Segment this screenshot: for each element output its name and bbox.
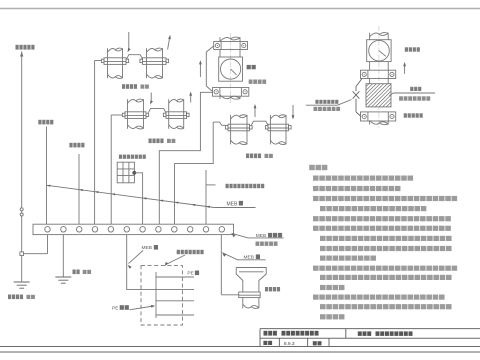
MEB terminal board bus bar: [33, 224, 234, 234]
label: (煤气公司确定) 2: [314, 107, 341, 111]
flow arrow shaft return: [292, 105, 294, 118]
leader to spark gap: [338, 100, 352, 106]
PE riser (PE干线): [155, 272, 157, 318]
note 10: 6.当利用建筑物金属体做防雷及接地时,MEB端子板: [313, 266, 457, 271]
label: 采暖管: [122, 84, 137, 89]
label: (注7) c: [265, 154, 273, 158]
wire: other parts to MEB bar: [205, 170, 207, 224]
gas upper flange: [361, 70, 396, 78]
test clamp square: [20, 252, 24, 256]
svg-text:PE: PE: [112, 305, 118, 311]
arrowhead PE干线: [151, 305, 155, 308]
note 2: 2.MEB线截面见具体工程设计。: [313, 186, 400, 191]
disconnect link circles: [20, 208, 23, 211]
label: 热水管: [246, 154, 261, 159]
arrowhead pointing at terminal board: [232, 233, 236, 237]
centerline of water meter: [229, 33, 231, 103]
wire: hot water pipes to MEB bar: [175, 122, 214, 224]
title: 第九节 等电位联结安装: [358, 331, 371, 336]
clamp on supply pipe right: [163, 112, 189, 119]
flow arrowhead hot up: [254, 104, 257, 108]
bypass jumper wire across water meter: [206, 46, 213, 92]
svg-text:PE: PE: [187, 271, 193, 277]
label: 进户水管: [249, 80, 266, 84]
wire below terminal 2 to earth: [62, 235, 64, 277]
pipe between flange and insulation: [369, 79, 371, 84]
clamp on heating supply pipe: [101, 58, 128, 65]
wire: terminal1 branch: [24, 253, 48, 255]
note 13: 7.图中箭头方向为示水、气流动方向,当进、回水: [313, 295, 445, 300]
drain pipe below clamp: [243, 298, 259, 309]
svg-text:MEB: MEB: [256, 233, 266, 239]
pipe: heating return: [147, 48, 163, 78]
label: telephone equipment 电话设备: [69, 143, 84, 148]
flow arrowhead water up: [199, 60, 202, 64]
distribution box 自进线配电箱 (dashed): [141, 266, 182, 325]
water meter top flange: [214, 42, 248, 50]
jumper wire between hot water pipes: [252, 121, 268, 125]
leader to jumper 2: [150, 93, 152, 102]
wire: metal structure to MEB bar: [134, 173, 142, 224]
sheet bottom border outer: [0, 351, 480, 353]
leader underline MEB线: [214, 207, 255, 209]
note 11: 宜直接和接地与该建筑物所做防雷及接板的金属: [320, 275, 452, 280]
clamp on hot water left: [225, 124, 252, 131]
title block frame: [260, 329, 480, 347]
label: 避雷接地: [8, 295, 23, 300]
wire below terminal 1: [47, 235, 49, 254]
label: (注7): [141, 85, 149, 89]
note 3: 3.MEB端子板宜暗装在电源进线或进线配电盘处,: [313, 196, 457, 201]
svg-text:MEB: MEB: [142, 245, 152, 251]
wire: water meter to MEB bar: [159, 92, 212, 224]
wire to lightning earth: [21, 256, 23, 283]
leader to jumper: [128, 32, 130, 49]
note 4: 并应加罩,防止无关人员触碰。: [320, 206, 426, 211]
note 14: 管相距较远时,也可由MEB端子板分别用一根MEB: [320, 304, 452, 309]
pipe: water supply left 上水管: [128, 99, 144, 129]
gas meter body 煤气表: [367, 40, 391, 62]
wire: telephone to MEB bar: [78, 154, 80, 224]
wire: diagonal MEB line: [46, 185, 215, 207]
flow arrow shaft hot: [254, 106, 256, 118]
wire: hot water clamp tap: [213, 122, 225, 125]
svg-text:MEB: MEB: [244, 255, 254, 261]
grid symbol: building metal structure: [117, 162, 134, 183]
insulation layer 绝缘层 (hatched): [366, 84, 391, 107]
label: (注6): [27, 295, 35, 299]
gas flow arrow shaft: [404, 64, 406, 74]
gas meter dial: [369, 40, 390, 61]
label: 建筑物金属结构: [119, 155, 146, 159]
label: 火花放电间隙: [315, 100, 338, 104]
label: 上水管: [149, 139, 164, 144]
flow arrow shaft: [168, 36, 170, 49]
label: 绝缘层: [410, 87, 421, 91]
ground: earth electrode (注5): [55, 277, 71, 283]
sheet top border: [0, 8, 480, 10]
label: 接地: [73, 270, 80, 275]
gas meter needle: [379, 51, 386, 57]
underline 火花放电间隙: [306, 104, 338, 106]
arrowhead MEB线 label3: [128, 265, 132, 269]
pipe: hot water right: [270, 115, 286, 145]
flow arrowhead down: [292, 115, 295, 119]
gas lower flange: [361, 112, 396, 121]
arrowhead 自进线配电箱: [165, 262, 168, 266]
clamp on heating return pipe: [140, 58, 169, 65]
note 5: 4.相邻近管道及金属结构均应与一根MEB线连接。: [313, 216, 451, 221]
svg-text:MEB: MEB: [227, 201, 239, 207]
arrowheads on MEB line at wire crossings: [47, 185, 51, 187]
jumper wire between supply pipes: [149, 109, 166, 113]
flow arrowhead up: [168, 35, 171, 39]
label: 其他需要连接的部件: [226, 184, 265, 188]
note 1: 1.MEB端子板做法见图8.6.9~8.6.11。: [313, 176, 413, 181]
pipe below water meter: [220, 95, 240, 99]
label: antenna equipment 天线设备: [38, 120, 53, 125]
arrowhead at jumper: [128, 48, 131, 52]
wire: MEB bar to drain clamp: [220, 235, 222, 295]
flow arrowhead up 2: [189, 92, 192, 96]
jumper wire between heating pipes: [127, 55, 143, 59]
leader MEB线 label3: [129, 251, 144, 264]
leader MEB线 label2: [222, 253, 265, 260]
note 8: 时,不需另打人工接地极,保护接地与防雷接地: [320, 246, 452, 251]
pipe: water meter inlet (top break): [220, 37, 240, 41]
title: 第八章 建筑物内配电工程: [264, 331, 277, 336]
label: water meter 水表: [247, 65, 256, 69]
label: 自进线配电箱: [177, 250, 204, 254]
gas flow arrowhead: [403, 62, 406, 66]
label: lightning down-lead 避雷带引下线: [16, 45, 35, 50]
wire: heating pipes to MEB bar: [94, 61, 96, 225]
leader 自进线配电箱: [166, 255, 185, 265]
underline 绝缘层: [393, 92, 435, 94]
label: 至下水管: [265, 287, 280, 291]
terminal circles: [45, 227, 51, 233]
gas pipe top (break): [370, 33, 389, 40]
water meter bottom flange: [213, 88, 249, 97]
wire: lightning down conductor: [21, 52, 23, 252]
centerline gas assembly: [378, 26, 380, 128]
PE tap lines: [156, 276, 194, 278]
arrowhead MEB线 label2: [222, 253, 226, 257]
arrowhead at jumper 2: [150, 100, 153, 104]
leader: MEB端子板: [232, 233, 284, 238]
wire: MEB bar to PE riser: [127, 235, 156, 290]
water meter dial: [221, 59, 241, 79]
flow arrow shaft 2: [190, 93, 192, 103]
note 12: 体连通。: [320, 285, 344, 290]
gas pipe bottom (break): [370, 120, 389, 124]
wire: supply clamp tap: [111, 114, 122, 116]
label: 煤气表: [405, 47, 420, 51]
note 7: 接地体的接地电阻值已满足电气装置的接地要求: [320, 236, 452, 241]
pipe: water supply right: [169, 99, 184, 129]
cell: 图号: [263, 341, 272, 345]
arrow up to lightning belt: [20, 52, 23, 57]
spark discharge gap: [353, 79, 362, 117]
drain funnel: [236, 268, 266, 293]
sheet bottom border inner: [0, 346, 480, 348]
flow arrow shaft water: [199, 62, 201, 77]
clamp on drain pipe: [239, 292, 261, 298]
label: 进煤气管: [404, 113, 423, 117]
wire horizontal to drain clamp: [221, 294, 238, 296]
pipe sides between flange and meter: [219, 50, 221, 58]
leader to insulation: [389, 93, 393, 96]
label: (做法见图): [256, 242, 278, 246]
note 15: 线连接。: [320, 314, 344, 319]
label: (注5): [83, 270, 91, 274]
ground: lightning earth 避雷接地: [14, 282, 30, 288]
water meter body: [219, 57, 243, 81]
wire: supply pipes to MEB bar: [110, 115, 112, 224]
pipe between gas meter and flange: [369, 62, 371, 71]
water meter needle: [231, 69, 237, 75]
label: (注7) b: [167, 139, 175, 143]
leader tick: [206, 184, 216, 186]
wire: antenna to MEB bar: [46, 127, 48, 225]
note 9: 宜直接相联接连通。: [320, 256, 376, 261]
clamp on supply pipe left: [122, 112, 148, 119]
leader PE干线: [130, 306, 154, 310]
clamp on hot water right: [265, 124, 291, 131]
wire: heating clamp tap: [95, 60, 102, 62]
note 6: 5.经实测近等电位联结内热水管、暖气等管道与自然: [313, 226, 451, 231]
connection dot on grid: [133, 171, 136, 174]
notes heading 附注:: [309, 165, 327, 170]
pipe: heating supply 采暖管: [108, 48, 123, 78]
pipe: hot water left 热水管: [231, 115, 247, 145]
cell: 图名: [313, 341, 322, 345]
label: (煤气公司确定): [399, 96, 430, 100]
